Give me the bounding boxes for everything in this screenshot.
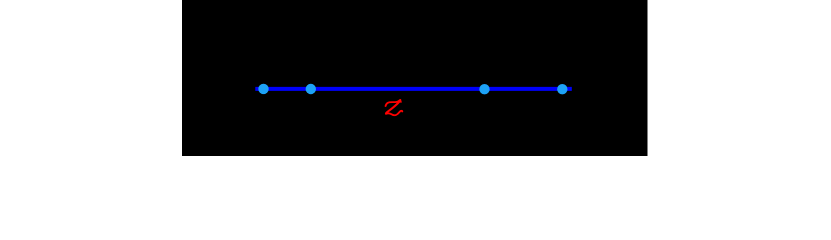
black figure panel (182, 0, 648, 156)
label z (386, 100, 403, 115)
point dot 1 (258, 84, 268, 94)
point dot 4 (557, 84, 567, 94)
line segment (255, 87, 572, 91)
point dot 3 (479, 84, 489, 94)
point dot 2 (306, 84, 316, 94)
white page background (0, 0, 831, 156)
